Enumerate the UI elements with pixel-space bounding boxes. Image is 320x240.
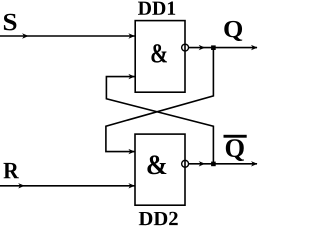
arrowhead Q wire end (251, 45, 258, 50)
arrowhead feedback into DD2 pin 1 (128, 149, 135, 154)
arrowhead on S wire (22, 33, 29, 38)
wire Q-bar output (189, 163, 257, 165)
label DD2 (139, 212, 178, 225)
overline of Q-bar (224, 135, 247, 138)
NAND gate DD1 body (135, 21, 185, 93)
wire from node Q to DD2 feedback input (106, 48, 213, 152)
node Q junction dot (211, 45, 216, 50)
wire S input (0, 35, 135, 37)
label R (4, 163, 19, 178)
arrowhead on R wire (18, 183, 25, 188)
NAND gate DD2 body (135, 134, 185, 205)
inversion bubble of DD2 output (182, 160, 189, 167)
arrowhead on Q wire before node (199, 45, 206, 50)
label Q (224, 21, 242, 41)
wire R input (0, 185, 135, 187)
wire Q output (189, 47, 257, 49)
label S (4, 14, 17, 31)
inversion bubble of DD1 output (182, 44, 189, 51)
arrowhead on Q-bar wire before node (199, 161, 206, 166)
arrowhead S into DD1 pin 1 (128, 33, 135, 38)
arrowhead feedback into DD1 pin 2 (128, 74, 135, 79)
arrowhead R into DD2 pin 2 (128, 183, 135, 188)
label DD1 (138, 2, 175, 15)
wire from node Q-bar to DD1 feedback input (106, 77, 213, 164)
arrowhead Q-bar wire end (251, 161, 258, 166)
amp symbol of DD2 (147, 155, 166, 174)
label Q-bar (226, 139, 244, 161)
amp symbol of DD1 (151, 44, 167, 63)
node Q-bar junction dot (211, 162, 216, 167)
